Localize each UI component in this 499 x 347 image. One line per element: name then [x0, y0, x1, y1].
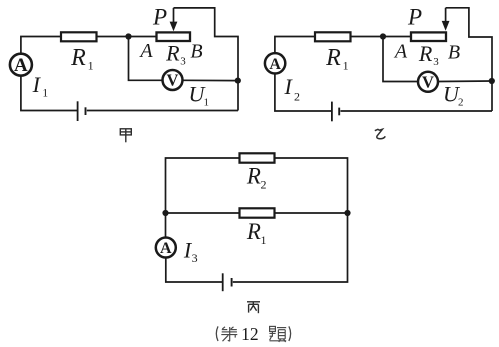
label A terminal (jia): [138, 40, 153, 62]
svg-text:A: A: [14, 55, 28, 76]
battery (yi): [332, 102, 339, 122]
ammeter A (I1 meter): [10, 54, 32, 76]
svg-text:R: R: [325, 45, 341, 71]
label P (jia): [152, 5, 167, 30]
svg-text:R: R: [246, 219, 261, 244]
node dot left (bing): [162, 210, 168, 216]
wire node to potentiometer (yi): [383, 36, 411, 38]
battery (bing): [223, 273, 232, 291]
resistor R1 (bing): [240, 208, 275, 217]
voltmeter V (U1 meter): [163, 70, 183, 90]
svg-text:B: B: [448, 42, 460, 64]
label B terminal (yi): [448, 42, 460, 64]
svg-text:P: P: [152, 5, 167, 30]
node junction dot (jia right): [235, 78, 241, 84]
label yi (Chinese): [375, 129, 386, 138]
wire voltmeter to right node (jia): [183, 79, 238, 81]
wire bottom (yi): [341, 110, 493, 112]
svg-text:R: R: [418, 41, 433, 66]
wire outline top (bing): [166, 158, 240, 213]
label P (yi): [407, 5, 422, 30]
wire top-left horizontal (ammeter to R1, yi): [275, 37, 315, 53]
caption open paren: [216, 326, 218, 341]
wiper arrow P (yi): [442, 8, 450, 31]
wire node to potentiometer (jia): [129, 36, 157, 38]
svg-text:V: V: [167, 71, 179, 90]
svg-text:V: V: [422, 72, 434, 91]
svg-text:1: 1: [42, 88, 48, 100]
node junction dot (yi right): [489, 78, 495, 84]
label A terminal (yi): [393, 41, 408, 63]
label U1: [189, 82, 209, 109]
svg-text:3: 3: [192, 251, 198, 265]
resistor R2 (bing): [240, 153, 275, 162]
caption character di: [221, 327, 237, 341]
voltmeter V (U2 meter): [418, 72, 438, 92]
wire wiper top loop (yi): [446, 8, 492, 111]
svg-text:1: 1: [88, 59, 94, 73]
label U2: [443, 82, 463, 109]
wire bottom (battery to right side): [87, 110, 238, 112]
label R1 (jia): [70, 45, 94, 73]
wire middle right (bing): [275, 212, 348, 214]
svg-text:A: A: [269, 56, 281, 73]
label bing (Chinese): [247, 302, 260, 313]
label jia (Chinese): [120, 129, 131, 143]
wire wiper top loop (jia): [174, 8, 239, 111]
wire left vertical upper (bing): [165, 213, 167, 237]
svg-text:1: 1: [261, 233, 267, 247]
ammeter A (I3 meter): [156, 238, 176, 258]
svg-text:A: A: [160, 240, 172, 257]
svg-text:A: A: [393, 41, 408, 63]
svg-text:3: 3: [433, 56, 439, 68]
svg-text:1: 1: [343, 59, 349, 73]
potentiometer R3 body (yi): [411, 32, 446, 41]
svg-text:R: R: [165, 41, 180, 66]
label I1: [32, 72, 49, 100]
wire top-left horizontal (ammeter to R1): [21, 37, 61, 53]
wire left vertical lower (bing): [166, 258, 222, 282]
svg-text:1: 1: [204, 97, 210, 109]
label B terminal (jia): [190, 41, 202, 63]
svg-text:B: B: [190, 41, 202, 63]
wire left vertical (yi): [275, 75, 331, 112]
svg-text:2: 2: [458, 97, 464, 109]
svg-text:2: 2: [261, 178, 267, 192]
svg-text:A: A: [138, 40, 153, 62]
wire middle left (bing): [166, 212, 240, 214]
resistor R1 (yi): [315, 32, 351, 41]
wire voltmeter to right node (yi): [439, 80, 493, 83]
battery (jia): [78, 101, 86, 121]
label R2 (bing): [246, 164, 267, 192]
node dot right (bing): [344, 210, 350, 216]
wiper arrow P (jia): [170, 8, 178, 31]
svg-text:R: R: [246, 164, 261, 189]
wire top right (bing): [275, 158, 348, 213]
wire R1 to node (yi): [351, 36, 384, 38]
label R1 (bing): [246, 219, 267, 247]
label I2: [284, 74, 300, 104]
resistor R1 (jia): [61, 32, 97, 41]
wire bottom right (bing): [233, 213, 348, 282]
wire left vertical (ammeter to bottom): [21, 76, 77, 111]
svg-text:12: 12: [241, 324, 259, 344]
svg-text:P: P: [407, 5, 422, 30]
ammeter A (I2 meter): [265, 53, 285, 73]
svg-text:R: R: [70, 45, 86, 71]
caption number 12: [241, 324, 259, 344]
node junction dot (yi top): [380, 33, 386, 39]
label R3 (yi): [418, 41, 439, 68]
wire node down to voltmeter (yi): [383, 37, 418, 82]
caption close paren: [289, 326, 291, 341]
node junction dot (jia top): [125, 33, 131, 39]
label R3 (jia): [165, 41, 186, 68]
label R1 (yi): [325, 45, 349, 73]
svg-text:2: 2: [294, 90, 300, 104]
caption character ti: [269, 326, 286, 342]
wire node down to voltmeter (jia): [129, 37, 163, 81]
svg-text:3: 3: [180, 56, 186, 68]
wire R1 to node (jia): [97, 36, 129, 38]
potentiometer R3 body (jia): [157, 32, 191, 41]
label I3: [183, 237, 198, 265]
